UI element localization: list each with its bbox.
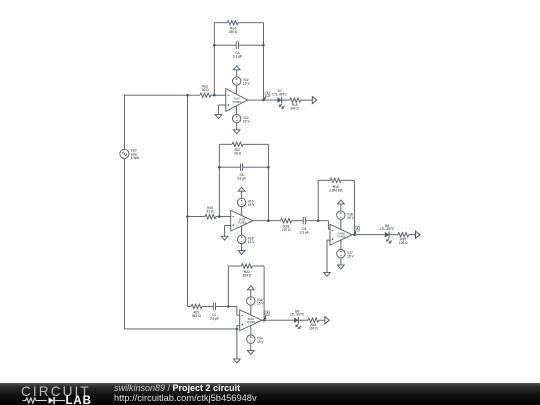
wire input bus horizontal top (124, 94, 200, 96)
op-amp OA10 (330, 224, 352, 245)
wire C7 to op-amp (216, 306, 240, 315)
resistor R15 (290, 98, 301, 111)
svg-text:15 V: 15 V (347, 216, 354, 220)
wire D6 to R23 (298, 319, 308, 321)
wire bus to R16 (188, 216, 206, 218)
wire R16 to op-amp (216, 216, 231, 218)
wire op-amp pin to V17 (340, 240, 342, 250)
wire op-amp pin to V14 (250, 325, 252, 335)
resistor R23 (308, 318, 319, 331)
svg-text:10 Ω: 10 Ω (234, 152, 241, 156)
ground stage2 non-inverting (221, 236, 228, 240)
svg-text:LTL-30TC: LTL-30TC (380, 227, 395, 231)
svg-text:3.3 µF: 3.3 µF (237, 176, 246, 180)
svg-text:912 Ω: 912 Ω (192, 314, 201, 318)
wire R20 to output terminal (409, 234, 416, 236)
resistor R17 (232, 142, 243, 156)
voltage source V12 (233, 77, 251, 86)
node stage3 output junction (353, 233, 356, 236)
ground V16 (238, 244, 245, 255)
wire stage3 plus stub (327, 240, 330, 272)
wire stage2 feedback top right (243, 143, 268, 145)
node stage1 cap left (213, 44, 216, 47)
ground stage1 non-inverting (215, 115, 222, 119)
capacitor C6 (300, 217, 309, 235)
wire V19 to op-amp pin (250, 305, 252, 315)
probe stage4 output (264, 311, 269, 320)
wire source top vertical (123, 95, 125, 149)
LED D6 (290, 309, 305, 329)
wire R23 to output terminal (319, 319, 325, 321)
svg-text:270 Ω: 270 Ω (282, 228, 291, 232)
wire input bus vertical (187, 95, 189, 306)
resistor R21 (191, 304, 202, 318)
svg-text:15 V: 15 V (243, 119, 250, 123)
wire R11 to op-amp (211, 94, 226, 96)
svg-text:91 Ω: 91 Ω (207, 209, 214, 213)
node stage4 output junction (263, 319, 266, 322)
logo diode (49, 397, 54, 403)
wire stage2 feedback left vertical (218, 144, 220, 216)
wire stage4 output (262, 319, 294, 321)
LED D8 (380, 224, 395, 244)
svg-text:15 V: 15 V (248, 203, 255, 207)
wire stage3 feedback top left (318, 179, 330, 181)
voltage source V15 (237, 198, 255, 207)
footer url line (114, 393, 257, 403)
wire stage1 cap row right (238, 44, 263, 46)
voltage source V19 (247, 297, 265, 306)
logo resistor squiggle (23, 398, 47, 403)
ground V14 (247, 343, 254, 354)
wire stage2 feedback right vertical (267, 144, 269, 220)
svg-text:15 V: 15 V (347, 254, 354, 258)
LED D7 (272, 89, 287, 109)
voltage source V16 (237, 235, 255, 244)
svg-text:100 Ω: 100 Ω (290, 107, 299, 111)
capacitor C7 (210, 303, 219, 321)
node stage2 cap right (267, 166, 270, 169)
svg-text:1 kHz: 1 kHz (131, 156, 140, 160)
node stage4 ground junction (236, 328, 239, 331)
output terminal stage3 (416, 231, 420, 238)
node stage2 cap left (218, 166, 221, 169)
resistor R16 (205, 206, 216, 219)
voltage source V17 (337, 250, 355, 259)
ground stage3 non-inverting (324, 272, 331, 276)
resistor R14 (227, 21, 238, 35)
svg-text:TL081: TL081 (337, 235, 346, 239)
node summing input junction (317, 219, 320, 222)
svg-text:1.054 kΩ: 1.054 kΩ (329, 188, 343, 192)
node stage1 output junction (262, 99, 265, 102)
wire stage1 output (248, 99, 278, 101)
capacitor C4 (233, 41, 242, 58)
node stage1 inverting input junction (213, 94, 216, 97)
wire stage4 feedback left vertical (227, 266, 229, 306)
wire source bottom vertical (123, 158, 125, 329)
resistor R18 (281, 219, 292, 232)
output terminal stage1 (312, 97, 316, 104)
wire stage1 feedback left vertical (213, 23, 215, 96)
svg-text:15 V: 15 V (257, 302, 264, 306)
wire R18 to C6 (292, 220, 304, 222)
svg-text:150 Ω: 150 Ω (229, 30, 238, 34)
svg-text:TL081: TL081 (233, 100, 242, 104)
svg-text:LTL-30TC: LTL-30TC (272, 93, 287, 97)
svg-text:30 Ω: 30 Ω (202, 88, 209, 92)
wire stage4 feedback right vertical (263, 266, 265, 320)
svg-text:LTL-30TC: LTL-30TC (290, 313, 305, 317)
wire D8 to R20 (389, 234, 398, 236)
wire stage1 feedback right vertical (263, 23, 265, 100)
svg-text:100 Ω: 100 Ω (399, 241, 408, 245)
wire stage1 feedback top right (238, 22, 263, 24)
power arrow stage3 positive supply (338, 200, 345, 211)
footer bar (0, 383, 540, 405)
power arrow stage2 positive supply (238, 187, 245, 198)
svg-text:164 Ω: 164 Ω (243, 274, 252, 278)
wire stage4 feedback top right (252, 265, 264, 267)
svg-text:15 V: 15 V (243, 82, 250, 86)
power arrow stage4 positive supply (247, 286, 254, 297)
wire stage4 feedback top left (228, 265, 241, 267)
wire stage1 feedback top left (214, 22, 227, 24)
svg-text:15 V: 15 V (257, 340, 264, 344)
wire op-amp pin to V16 (241, 226, 243, 235)
wire stage3 feedback left vertical (317, 180, 319, 220)
svg-text:3.3 µF: 3.3 µF (300, 231, 309, 235)
svg-text:100 Ω: 100 Ω (309, 327, 318, 331)
wire stage2 cap row right (243, 166, 269, 168)
wire stage2 feedback top left (219, 143, 232, 145)
ground V17 (338, 258, 345, 269)
op-amp OA8 (231, 210, 253, 231)
CircuitLab logo (21, 384, 105, 405)
node input bus tap 1 (186, 94, 189, 97)
wire stage3 feedback right vertical (353, 180, 355, 234)
op-amp OA9 (240, 310, 262, 331)
wire stage1 plus stub (218, 105, 225, 115)
resistor R20 (398, 233, 409, 246)
wire R21 to C7 (202, 305, 213, 307)
wire stage3 output (352, 234, 385, 236)
node stage2 inverting input junction (218, 215, 221, 218)
wire stage3 feedback top right (341, 179, 354, 181)
ground stage4 non-inverting (234, 359, 241, 363)
wire stage4 plus stub (237, 326, 240, 359)
wire V18 to op-amp pin (340, 219, 342, 229)
svg-text:3.3 µF: 3.3 µF (233, 55, 242, 59)
wire source return horizontal (124, 328, 237, 330)
probe stage3 output (355, 227, 360, 234)
voltage source V18 (337, 211, 355, 220)
wire V15 to op-amp pin (241, 207, 243, 216)
wire C6 to summing stage (305, 221, 330, 230)
wire D7 to R15 (282, 99, 290, 101)
voltage source V14 (247, 335, 265, 344)
resistor R19 (329, 178, 343, 192)
resistor R22 (241, 264, 252, 278)
power arrow stage1 positive supply (233, 66, 240, 77)
wire V12 to op-amp pin (236, 85, 238, 94)
node stage1 cap right (262, 44, 265, 47)
probe stage1 output (264, 92, 270, 100)
node stage4 inverting input junction (227, 305, 230, 308)
svg-text:15 V: 15 V (248, 240, 255, 244)
wire R15 to output terminal (301, 99, 313, 101)
op-amp OA7 (226, 89, 248, 112)
node stage2 output junction (267, 219, 270, 222)
voltage source V20 sine 1kHz (120, 149, 140, 160)
wire stage2 output (253, 220, 281, 222)
wire stage2 plus stub (225, 226, 231, 237)
wire op-amp pin to V13 (236, 106, 238, 115)
svg-text:TL081: TL081 (247, 320, 256, 324)
capacitor C5 (237, 163, 246, 180)
svg-text:LAB: LAB (66, 395, 92, 405)
wire bus corner to R21 (188, 305, 192, 307)
wire stage2 cap row left (219, 166, 240, 168)
svg-text:3.3 µF: 3.3 µF (210, 316, 219, 320)
ground V13 (233, 123, 240, 134)
resistor R11 (200, 84, 211, 97)
node input bus tap 2 (186, 215, 189, 218)
footer credit line (114, 384, 240, 393)
output terminal stage4 (325, 317, 329, 324)
voltage source V13 (233, 114, 251, 123)
wire stage1 cap row left (214, 44, 236, 46)
svg-text:TL081: TL081 (238, 221, 247, 225)
